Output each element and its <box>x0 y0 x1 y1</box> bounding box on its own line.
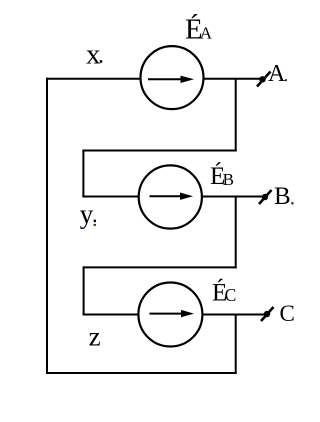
source EB circle <box>139 165 202 228</box>
svg-text:C: C <box>225 285 237 305</box>
svg-text:C: C <box>280 301 295 326</box>
source EC arrow <box>150 310 195 317</box>
svg-text:y: y <box>80 199 94 229</box>
terminal A slash <box>257 72 271 87</box>
source EA arrow <box>148 76 194 83</box>
terminal B dot <box>262 194 268 200</box>
svg-text:B: B <box>223 170 234 189</box>
label node y colon dot 2 <box>94 224 96 226</box>
source EA circle <box>141 46 204 109</box>
wire junction drop C to bottom <box>235 314 237 375</box>
terminal A dot <box>259 76 265 82</box>
terminal B slash <box>259 190 272 204</box>
wire loop 2 top <box>82 150 236 152</box>
label node x period <box>100 60 102 63</box>
wire inner left vertical y <box>82 150 84 198</box>
wire loop 3 top <box>83 266 237 268</box>
label terminal A period <box>285 79 287 81</box>
label terminal B period <box>291 202 293 204</box>
source EC circle <box>138 283 202 347</box>
svg-text:x: x <box>86 39 101 71</box>
wire top row A left segment <box>46 78 141 80</box>
wire row C left segment <box>83 314 139 316</box>
wire junction drop B to loop 3 <box>235 196 237 269</box>
wire row B right segment to terminal B <box>202 196 267 198</box>
wire row A right segment to terminal A <box>204 78 265 80</box>
wire row C right segment to terminal C <box>202 314 268 316</box>
terminal C dot <box>264 311 270 317</box>
wire bottom <box>46 372 237 374</box>
svg-text:A: A <box>200 24 213 43</box>
wire junction drop A to loop 2 <box>235 78 237 152</box>
svg-text:z: z <box>89 322 101 352</box>
svg-text:B: B <box>274 183 291 210</box>
wire inner left vertical z <box>83 266 85 315</box>
source EB arrow <box>150 193 194 200</box>
terminal C slash <box>261 307 274 321</box>
wire left bus x <box>46 78 48 374</box>
svg-text:A: A <box>268 61 286 87</box>
label node y colon dot 1 <box>94 220 96 223</box>
wire row B left segment <box>82 196 139 198</box>
